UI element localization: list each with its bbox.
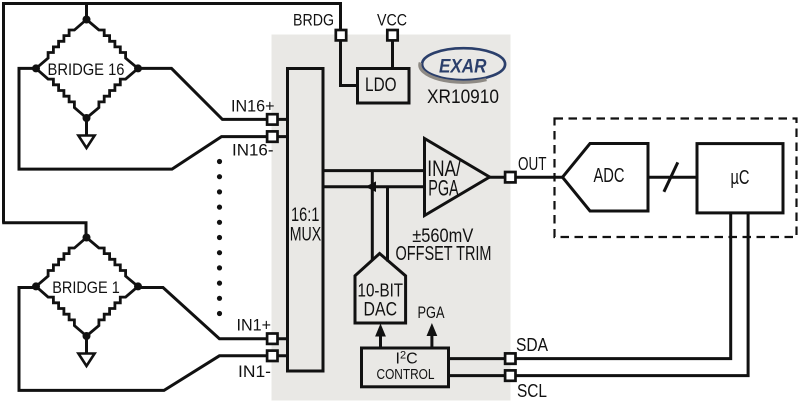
wire: BRIDGE 16 bottom node to ground [85,118,88,136]
INA/PGA amplifier triangle U1 [425,139,490,216]
svg-text:SCL: SCL [517,381,547,401]
svg-text:LDO: LDO [365,74,397,96]
svg-text:I2C: I2C [396,350,418,368]
svg-text:DAC: DAC [364,299,398,320]
bridge sensor BRIDGE 1: resistor diamond [36,238,138,337]
LDO block [358,69,410,104]
svg-text:IN1-: IN1- [238,362,271,381]
svg-text:IN16-: IN16- [232,140,274,159]
pin VCC [387,30,397,40]
wire: I2C control to PGA arrow [430,331,433,348]
EXAR logo ellipse ring [422,48,505,80]
wire: SCL from I2C control to uC [449,213,748,376]
ground symbol under BRIDGE 1 [78,354,94,367]
dashed host-system box [555,119,797,238]
svg-text:EXAR: EXAR [439,57,487,78]
node dots of BRIDGE 1 [83,234,91,242]
svg-text:PGA: PGA [418,303,445,322]
ADC block [563,144,649,212]
pin SCL [505,370,515,380]
pin BRDG [336,30,346,40]
ellipsis dots: channels 2..15 [217,159,222,164]
IC body XR10910 (gray region) [272,35,511,401]
svg-text:IN16+: IN16+ [231,96,275,115]
wire: input stubs pins to MUX [272,119,288,355]
wire: DAC offset injection verticals [372,171,387,262]
wire: BRIDGE 1 bottom node to ground [85,336,88,354]
svg-text:IN1+: IN1+ [237,316,272,335]
svg-text:ADC: ADC [594,164,625,187]
wire: bridge1 IN- (left node) loop to IN1- pin [19,288,288,391]
wire: BRDG pin stub inside IC [341,35,393,86]
16:1 MUX block [288,69,324,372]
svg-text:CONTROL: CONTROL [377,366,435,383]
wire: bridge16 IN- (left node) loop to IN16- pin [19,68,288,169]
wire: BRDG pin to LDO input [341,40,358,86]
wire: ADC to uC bus [648,176,698,179]
svg-text:OFFSET TRIM: OFFSET TRIM [396,243,492,265]
svg-text:XR10910: XR10910 [427,86,499,108]
node dots of BRIDGE 16 [83,16,91,24]
wire: BRDG rail branch down-left to bridge 1 top [2,223,86,238]
I2C CONTROL block [362,348,449,387]
wire: SDA from I2C control to uC [449,213,731,359]
pin IN1+ [267,334,277,344]
pin IN1- [267,351,277,361]
svg-text:10-BIT: 10-BIT [358,279,404,300]
svg-text:OUT: OUT [518,154,547,174]
wire: INA/PGA output to OUT pin and ADC [489,176,563,179]
svg-text:PGA: PGA [428,176,459,201]
bus slash on ADC-uC wire [664,162,678,191]
svg-text:BRDG: BRDG [293,11,334,30]
pin OUT [505,172,515,182]
pin SDA [505,353,515,363]
svg-text:16:1: 16:1 [291,205,320,226]
wire: bridge1 IN+ (right node) to IN1+ pin and MUX [138,288,288,339]
svg-text:BRIDGE 1: BRIDGE 1 [52,278,120,297]
wire: BRDG supply top rail from bridges to BRDG pin [4,4,341,223]
wire: bridge16 IN+ (right node) to IN16+ pin and MUX [138,68,288,119]
svg-text:SDA: SDA [516,335,548,355]
wire: MUX output pair to INA/PGA inputs [322,171,425,187]
pin IN16- [267,131,277,141]
svg-text:BRIDGE 16: BRIDGE 16 [48,60,125,79]
EXAR logo gray swoosh [420,63,487,83]
10-BIT DAC block [355,254,406,324]
svg-text:MUX: MUX [290,224,322,245]
uC block [697,144,783,213]
svg-text:µC: µC [731,167,750,189]
wire: I2C control to DAC arrow [379,331,382,348]
ground symbol under BRIDGE 16 [78,136,94,149]
arrow: offset summing arrowhead on lower INA input [365,181,376,192]
svg-text:VCC: VCC [377,11,407,30]
bridge sensor BRIDGE 16: resistor diamond [36,20,138,119]
pin IN16+ [267,114,277,124]
wire: VCC pin down to LDO top [391,40,394,69]
